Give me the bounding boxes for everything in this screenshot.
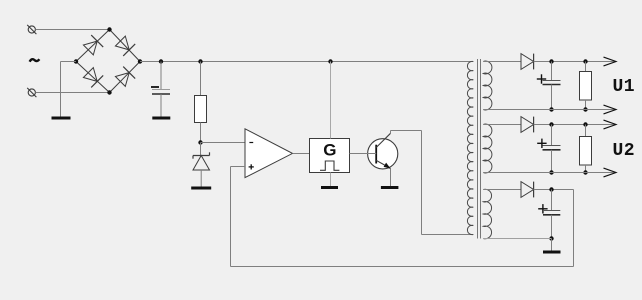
wire terminal-bottom to bridge bottom xyxy=(35,92,109,94)
wire C3 to U2 return xyxy=(551,150,553,173)
wire R2 to U1 return xyxy=(585,100,587,110)
wire secondary1 to diode D1 xyxy=(483,61,521,63)
label U1 xyxy=(613,77,635,97)
zener diode D5 xyxy=(193,152,210,170)
wire bus to C1 xyxy=(160,62,162,90)
node R2 bottom xyxy=(583,107,587,111)
wire node A to op-amp xyxy=(201,142,246,144)
node A (reference divider) xyxy=(198,140,202,144)
transformer core xyxy=(478,59,481,239)
wire node B to ground xyxy=(551,239,553,251)
node C4 top xyxy=(549,187,553,191)
bridge rectifier frame xyxy=(76,30,140,93)
node C2 bottom xyxy=(549,107,553,111)
node B (aux return) xyxy=(549,236,553,240)
wire D2 to output U2+ xyxy=(534,124,616,126)
label U2 xyxy=(613,141,635,161)
wire G module to ground xyxy=(330,173,332,187)
svg-text:G: G xyxy=(323,141,336,160)
bridge diode bottom-right xyxy=(115,67,135,87)
resistor R1 xyxy=(195,96,207,123)
wire to C4 xyxy=(551,190,553,211)
wire C4 to node B xyxy=(551,215,553,239)
wire secondary3 return xyxy=(483,238,551,240)
capacitor C3 xyxy=(537,139,560,150)
wire C1 to ground xyxy=(160,94,162,117)
wire to R2 xyxy=(585,62,587,72)
node R3 bottom xyxy=(583,170,587,174)
wire main bus xyxy=(140,61,473,63)
wire bus to R1 xyxy=(200,62,202,96)
wire D1 to output U1+ xyxy=(534,61,616,63)
wire R3 to U2 return xyxy=(585,165,587,173)
node bus resistor R1 xyxy=(198,59,202,63)
diode D2 xyxy=(521,117,534,133)
wire to C2 xyxy=(551,62,553,81)
wire to C3 xyxy=(551,125,553,146)
wire D3 to feedback corner xyxy=(534,189,574,191)
node bridge left xyxy=(74,59,78,63)
bridge diode top-left xyxy=(83,35,103,55)
svg-text:U1: U1 xyxy=(613,77,635,97)
transformer primary winding xyxy=(467,61,473,234)
wire terminal-top to bridge top xyxy=(35,29,109,31)
node bus cap C1 xyxy=(159,59,163,63)
wire U1 return xyxy=(483,109,615,111)
wire secondary2 to diode D2 xyxy=(483,124,521,126)
wire op-amp output xyxy=(293,153,310,155)
bridge diode top-right xyxy=(115,36,135,56)
wire collector xyxy=(391,131,474,235)
ground input xyxy=(52,117,71,120)
arrow U2 minus xyxy=(604,168,617,177)
wire feedback right riser xyxy=(573,190,575,267)
resistor R3 xyxy=(580,137,592,166)
arrow U2 plus xyxy=(604,120,617,129)
capacitor C2 xyxy=(537,74,561,84)
node bus G-module supply xyxy=(328,59,332,63)
wire zener to ground xyxy=(200,170,202,187)
wire feedback left riser xyxy=(230,167,232,267)
wire U2 return xyxy=(483,172,615,174)
transistor Q1 xyxy=(368,133,398,169)
ground G module xyxy=(321,186,338,189)
wire feedback to op-amp plus xyxy=(231,166,246,168)
diode D3 xyxy=(521,182,534,198)
wire to R3 xyxy=(585,125,587,137)
transformer secondary winding 2 xyxy=(483,124,492,173)
transformer secondary winding 1 xyxy=(483,61,492,110)
resistor R2 xyxy=(580,72,592,101)
wire bus to G module xyxy=(330,62,332,139)
node C3 bottom xyxy=(549,170,553,174)
node R2 top xyxy=(583,59,587,63)
ground aux xyxy=(543,251,561,254)
wire emitter to ground xyxy=(390,169,392,187)
ground zener xyxy=(191,187,211,190)
bridge diode bottom-left xyxy=(83,68,103,88)
node bridge bottom xyxy=(107,90,111,94)
node bridge top xyxy=(107,27,111,31)
svg-text:U2: U2 xyxy=(613,141,635,161)
node bridge right xyxy=(138,59,142,63)
node C3 top xyxy=(549,122,553,126)
node C2 top xyxy=(549,59,553,63)
diode D1 xyxy=(521,54,534,70)
capacitor C1 xyxy=(151,87,170,94)
wire node A to zener xyxy=(200,143,202,156)
capacitor C4 xyxy=(538,204,560,215)
wire feedback bottom xyxy=(231,266,574,268)
wire bridge-left to ground xyxy=(61,62,77,117)
transformer secondary winding 3 xyxy=(483,189,491,239)
wire G module to base xyxy=(350,153,377,155)
AC source symbol ~ xyxy=(30,59,40,62)
ground emitter xyxy=(381,186,399,189)
AC input terminal bottom xyxy=(27,88,36,97)
AC input terminal top xyxy=(27,25,36,34)
pulse generator module G xyxy=(310,139,350,173)
wire R1 to node A xyxy=(200,123,202,143)
node R3 top xyxy=(583,122,587,126)
op-amp comparator U3 xyxy=(245,129,293,178)
arrow U1 plus xyxy=(604,57,617,66)
arrow U1 minus xyxy=(604,105,617,114)
wire C2 to U1 return xyxy=(551,85,553,110)
ground C1 xyxy=(152,117,170,120)
wire secondary3 to diode D3 xyxy=(483,189,521,191)
